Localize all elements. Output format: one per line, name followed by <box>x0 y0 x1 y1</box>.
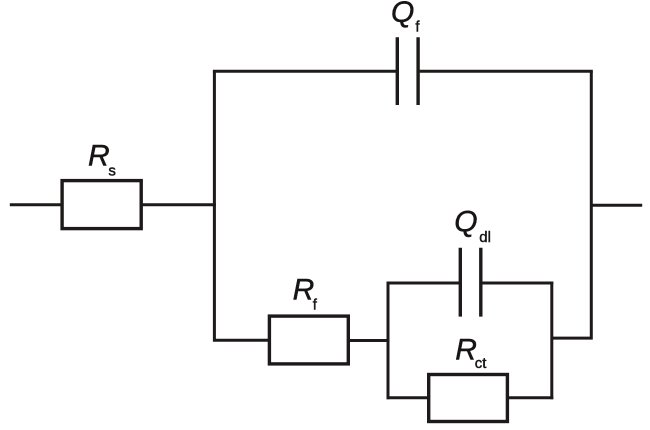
wire: top branch right segment <box>420 70 593 73</box>
wire: left vertical branch down to R_f <box>214 71 269 340</box>
capacitor Q_dl <box>460 248 481 317</box>
resistor R_s <box>62 181 141 229</box>
label Q_f <box>391 0 420 36</box>
svg-text:Q: Q <box>454 206 477 239</box>
svg-text:R: R <box>88 140 110 173</box>
svg-text:R: R <box>293 274 315 307</box>
svg-text:ct: ct <box>475 355 488 372</box>
wire: loop left edge <box>387 282 390 400</box>
wire: R_s to left junction <box>141 203 216 206</box>
wire: left input lead <box>10 203 62 206</box>
wire: loop right edge <box>550 282 553 400</box>
wire: loop top edge right of Q_dl <box>482 282 554 285</box>
label R_s <box>88 140 116 180</box>
label R_f <box>293 274 318 314</box>
wire: right output lead <box>591 204 642 207</box>
svg-text:dl: dl <box>479 229 491 246</box>
label Q_dl <box>454 206 491 247</box>
capacitor Q_f <box>397 37 418 105</box>
label R_ct <box>455 333 487 372</box>
wire: top branch left segment <box>213 70 396 73</box>
wire: right vertical down to loop connector <box>552 71 592 338</box>
svg-text:Q: Q <box>391 0 414 29</box>
resistor R_f <box>269 316 348 364</box>
svg-text:s: s <box>108 163 116 180</box>
wire: R_f to parallel loop <box>348 339 389 342</box>
wire: loop top edge left of Q_dl <box>387 282 460 285</box>
wire: loop bottom edge left of R_ct <box>387 396 430 399</box>
wire: loop bottom edge right of R_ct <box>507 396 553 399</box>
resistor R_ct <box>429 375 508 422</box>
svg-text:f: f <box>313 297 318 314</box>
svg-text:f: f <box>415 19 420 36</box>
